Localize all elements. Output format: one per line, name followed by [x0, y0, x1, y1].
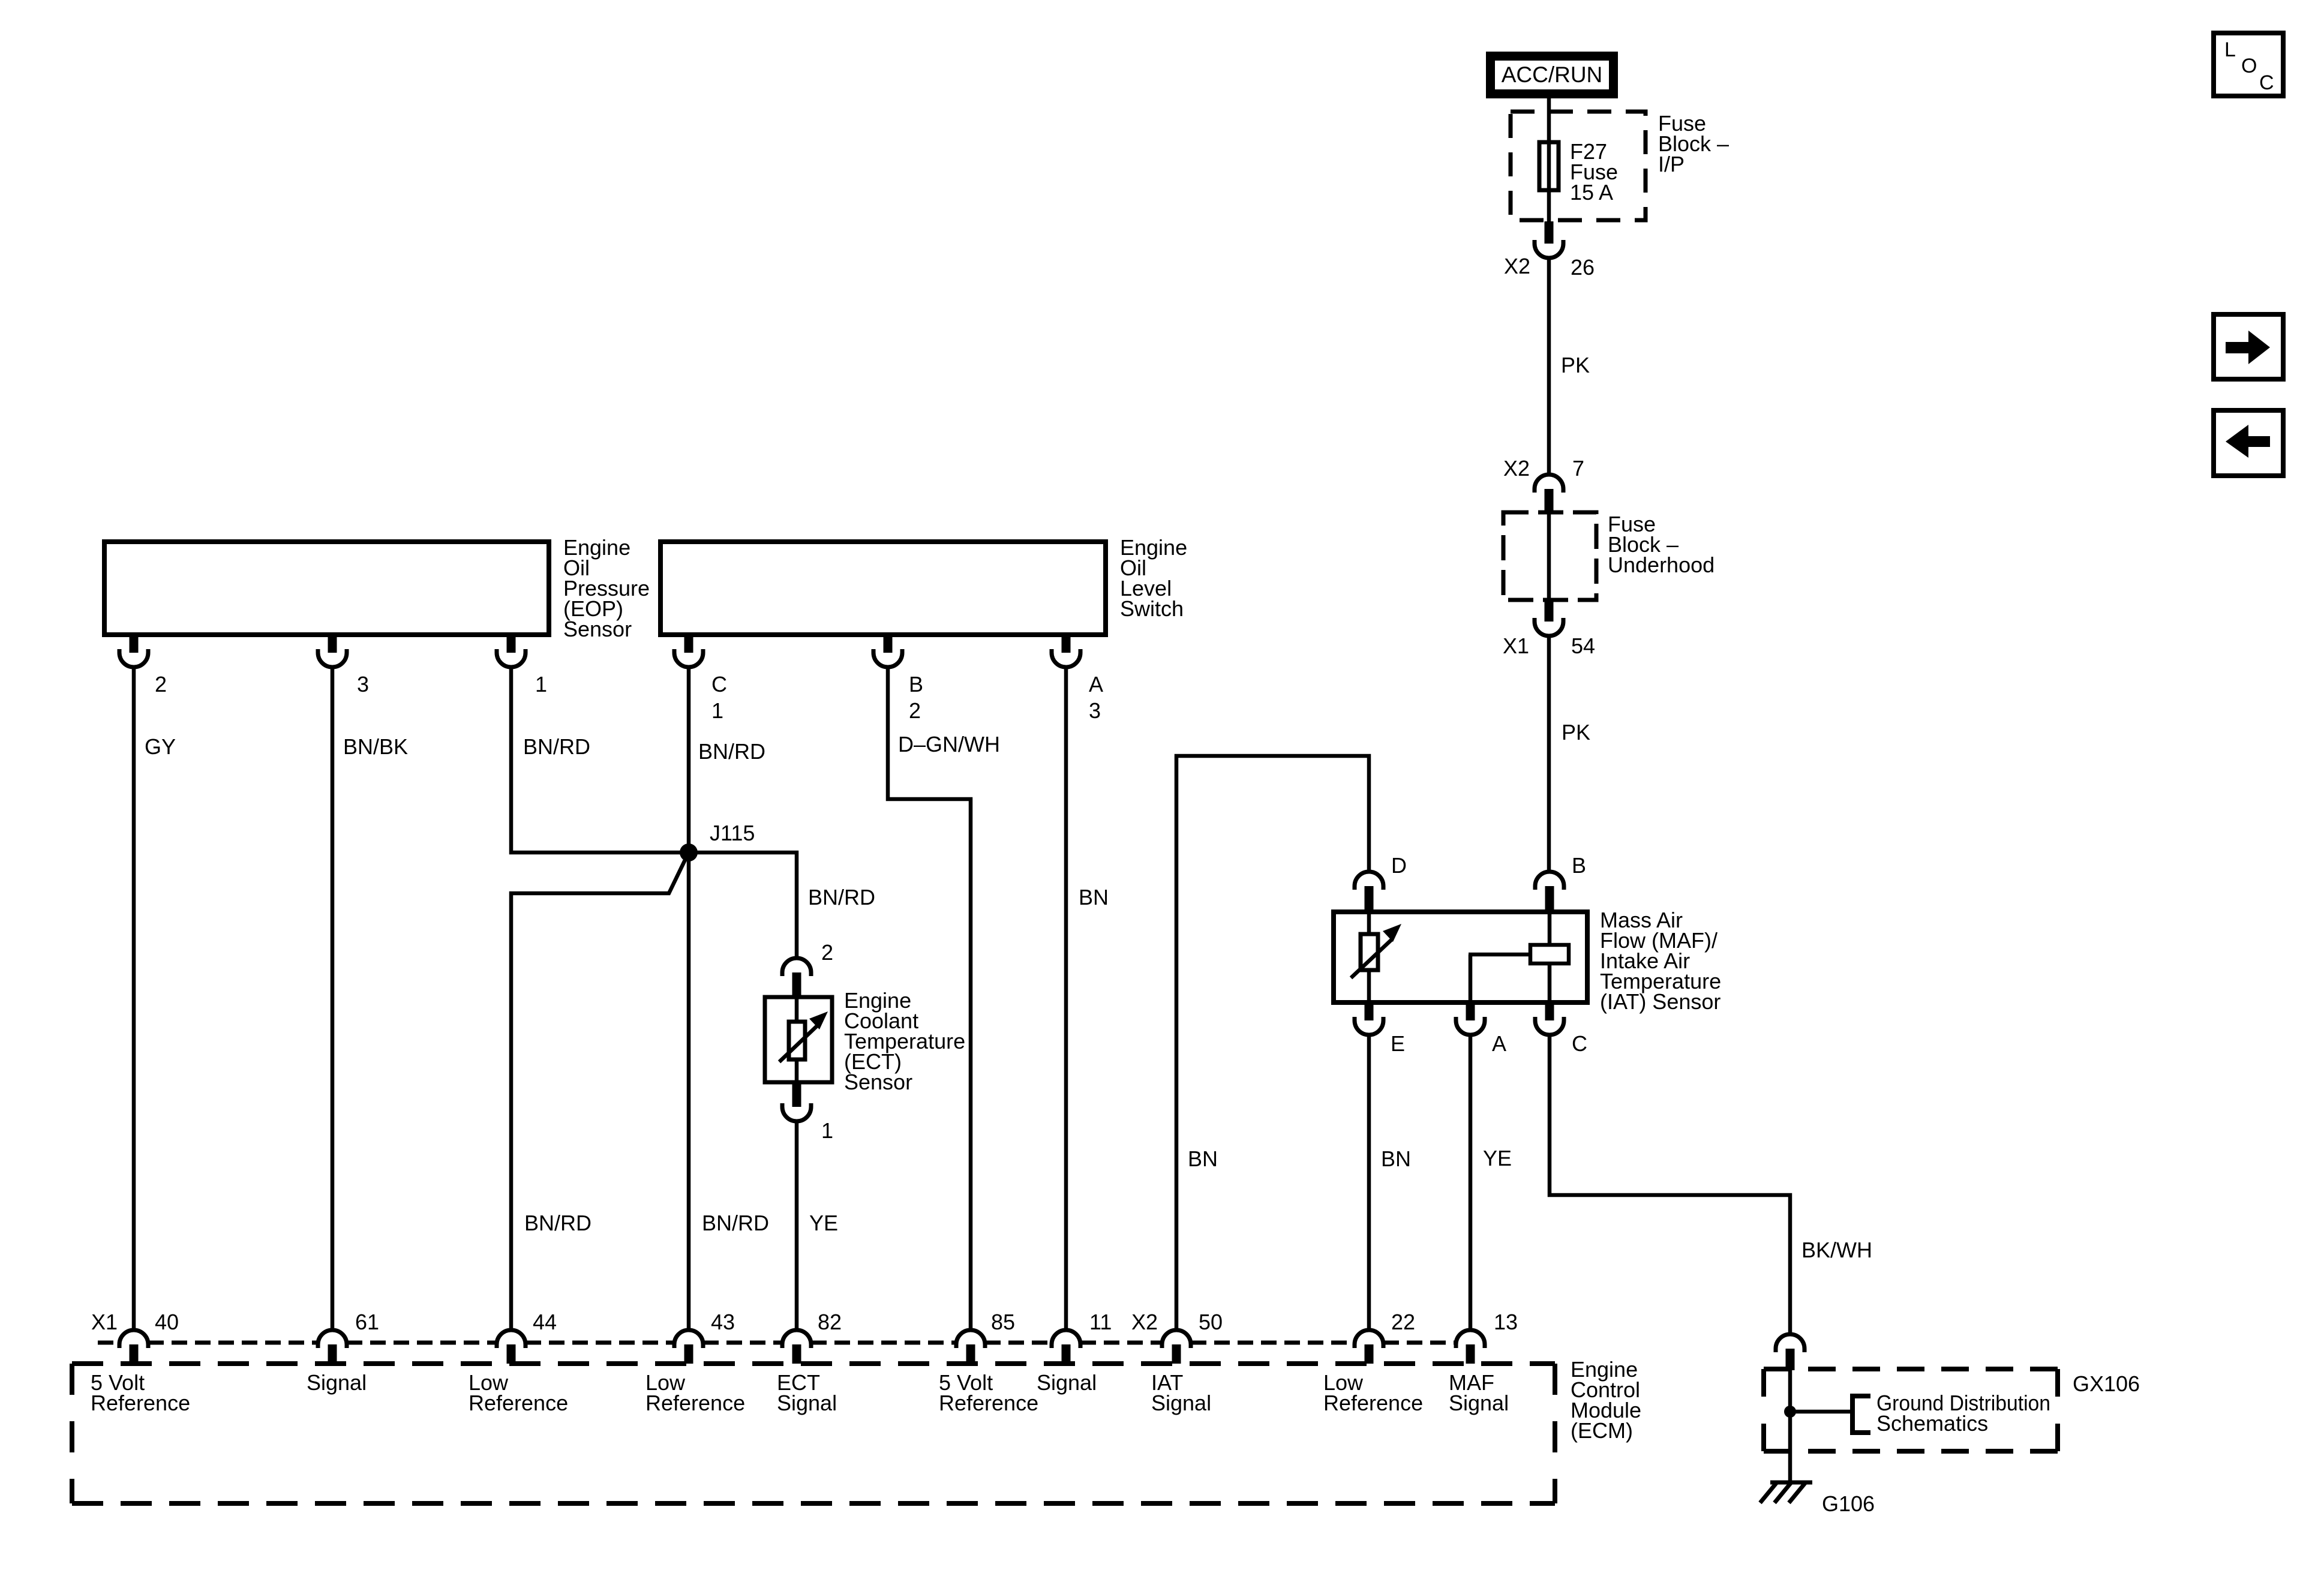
connector X1 pin 54 (fuse block underhood) — [1545, 601, 1554, 622]
connector ECM pin at x=2282 — [1355, 1330, 1383, 1348]
svg-text:PK: PK — [1561, 353, 1590, 377]
connector EOP pin 3 — [328, 636, 337, 653]
wire internal MAF sense element branch — [1469, 912, 1550, 1000]
wire BN (MAF E to ECM 22) — [1367, 1035, 1371, 1330]
svg-text:3: 3 — [1089, 698, 1101, 723]
svg-text:B: B — [1572, 853, 1586, 878]
svg-text:26: 26 — [1571, 255, 1595, 280]
node Engine Oil Pressure (EOP) Sensor box — [104, 542, 549, 635]
wire through fuse block underhood — [1547, 511, 1551, 601]
connector EOP pin 2 — [130, 636, 139, 653]
node GX106 dashed box — [1764, 1367, 2058, 1371]
svg-text:O: O — [2241, 55, 2257, 77]
wire BK/WH (MAF C to ground G106) — [1550, 1035, 1790, 1334]
connector X2 pin 26 (fuse block I/P) — [1545, 221, 1554, 244]
svg-text:BN/BK: BN/BK — [343, 734, 408, 759]
connector ECM pin at x=1777 — [1052, 1330, 1080, 1348]
svg-text:X1: X1 — [1503, 634, 1529, 658]
wire PK (X2-26 to X2-7) — [1547, 258, 1551, 475]
svg-text:YE: YE — [1483, 1146, 1512, 1170]
svg-text:A: A — [1492, 1031, 1506, 1056]
svg-text:BN: BN — [1381, 1146, 1411, 1171]
svg-text:YE: YE — [809, 1211, 838, 1235]
wire BN/RD (J115 to ECT pin 2) — [689, 852, 797, 958]
svg-text:E: E — [1391, 1031, 1405, 1056]
node LOC reference box — [2214, 33, 2283, 96]
connector MAF pin C — [1545, 1004, 1554, 1020]
svg-text:BN/RD: BN/RD — [524, 1211, 591, 1235]
thermistor ECT element — [789, 1022, 805, 1059]
connector MAF pin E — [1365, 1004, 1374, 1020]
wire BN (ECM 50 to MAF pin D, IAT signal) — [1176, 756, 1369, 1330]
fuse block underhood dashed outline — [1503, 512, 1596, 600]
wire BN/RD (J115 to ECM 44) — [511, 852, 689, 1330]
svg-text:C: C — [1572, 1031, 1587, 1056]
connector ground splice GX106 — [1786, 1349, 1795, 1370]
svg-text:C: C — [711, 672, 727, 697]
node Engine Control Module (ECM) dashed box — [72, 1361, 1555, 1366]
node backward arrow box — [2214, 410, 2283, 476]
svg-text:61: 61 — [355, 1310, 379, 1334]
svg-text:43: 43 — [711, 1310, 735, 1334]
svg-text:BN/RD: BN/RD — [698, 739, 765, 764]
svg-text:BN/RD: BN/RD — [808, 885, 875, 909]
svg-text:X2: X2 — [1504, 254, 1530, 278]
svg-text:Signal: Signal — [307, 1370, 367, 1395]
svg-text:2: 2 — [909, 698, 921, 723]
svg-text:G106: G106 — [1822, 1491, 1875, 1516]
connector oil level switch pin C — [684, 636, 693, 653]
svg-text:54: 54 — [1571, 634, 1595, 658]
svg-text:1: 1 — [711, 698, 723, 723]
thermistor IAT element — [1361, 934, 1378, 970]
svg-text:C: C — [2259, 71, 2274, 94]
svg-text:GX106: GX106 — [2073, 1371, 2140, 1396]
connector ECM pin at x=554 — [318, 1330, 347, 1348]
connector oil level switch pin B — [884, 636, 893, 653]
svg-text:A: A — [1089, 672, 1103, 697]
ground G106 symbol — [1770, 1481, 1812, 1485]
connector MAF pin D — [1365, 886, 1374, 911]
svg-text:40: 40 — [155, 1310, 179, 1334]
svg-text:11: 11 — [1089, 1310, 1112, 1334]
connector oil level switch pin A — [1062, 636, 1071, 653]
wire internal ECT — [795, 997, 799, 1082]
svg-text:BN: BN — [1079, 885, 1109, 909]
wire YE (MAF A to ECM 13) — [1469, 1035, 1473, 1330]
svg-text:1: 1 — [821, 1118, 833, 1143]
wire to ground distribution reference — [1790, 1410, 1852, 1414]
fuse block I/P dashed outline — [1511, 112, 1646, 220]
node ground distribution page bracket — [1852, 1396, 1870, 1433]
svg-text:BN/RD: BN/RD — [702, 1211, 769, 1235]
svg-text:L: L — [2224, 38, 2236, 61]
svg-text:Signal: Signal — [1037, 1370, 1097, 1395]
svg-text:3: 3 — [357, 672, 369, 697]
svg-text:82: 82 — [818, 1310, 842, 1334]
svg-text:PK: PK — [1562, 720, 1590, 745]
connector ECM pin at x=2451 — [1456, 1330, 1485, 1348]
connector ECT pin 1 — [792, 1083, 801, 1107]
wire YE (ECT 1 to ECM 82) — [795, 1121, 799, 1330]
connector X2 pin 7 (fuse block underhood) — [1545, 489, 1554, 511]
node Engine Coolant Temperature (ECT) Sensor box — [765, 997, 832, 1082]
connector ECM pin at x=1618 — [956, 1330, 985, 1348]
svg-text:44: 44 — [533, 1310, 557, 1334]
svg-text:85: 85 — [991, 1310, 1015, 1334]
svg-text:EngineControlModule(ECM): EngineControlModule(ECM) — [1571, 1357, 1641, 1443]
connector ECM pin at x=852 — [497, 1330, 526, 1348]
fuse F27 15A — [1539, 142, 1559, 190]
wire BN/BK (EOP 3 to ECM 61) — [331, 667, 335, 1330]
wire PK (X1-54 to MAF pin B) — [1547, 636, 1551, 872]
svg-text:X2: X2 — [1503, 456, 1530, 481]
svg-text:D: D — [1391, 853, 1407, 878]
connector EOP pin 1 — [507, 636, 516, 653]
wire internal MAF thermistor branch — [1367, 912, 1371, 1000]
connector ECM pin at x=1961 — [1162, 1330, 1191, 1348]
svg-text:BK/WH: BK/WH — [1801, 1238, 1872, 1262]
node junction dot in GX106 — [1784, 1406, 1796, 1418]
wire ground run inside GX106 — [1788, 1369, 1792, 1481]
wire BN/RD (level switch C through J115 to ECM 43) — [687, 667, 691, 1330]
wire D-GN/WH (level switch B to ECM 85) — [888, 667, 971, 1330]
svg-text:2: 2 — [155, 672, 167, 697]
connector ECM pin at x=1148 — [674, 1330, 703, 1348]
node Mass Air Flow (MAF) / Intake Air Temperature (IAT) Sensor box — [1334, 912, 1587, 1002]
svg-text:7: 7 — [1572, 456, 1584, 481]
svg-text:22: 22 — [1391, 1310, 1415, 1334]
node forward arrow box — [2214, 314, 2283, 379]
svg-text:J115: J115 — [710, 821, 755, 845]
wire GY (EOP 2 to ECM 40) — [132, 667, 136, 1330]
svg-text:B: B — [909, 672, 923, 697]
resistor MAF sense element — [1530, 945, 1569, 963]
node ECM connector dotted line — [98, 1341, 1456, 1345]
svg-text:50: 50 — [1199, 1310, 1223, 1334]
svg-text:X1: X1 — [91, 1310, 118, 1334]
svg-text:ACC/RUN: ACC/RUN — [1502, 62, 1603, 87]
wire BN (level switch A to ECM 11) — [1064, 667, 1068, 1330]
connector MAF pin A — [1466, 1004, 1475, 1020]
node Engine Oil Level Switch box — [660, 542, 1106, 635]
svg-text:13: 13 — [1494, 1310, 1518, 1334]
wire ACC/RUN to fuse F27 (inside Fuse Block I/P) — [1547, 98, 1551, 223]
connector ECM pin at x=1328 — [782, 1330, 811, 1348]
svg-text:D–GN/WH: D–GN/WH — [898, 732, 1000, 757]
connector MAF pin B — [1545, 886, 1554, 911]
svg-text:X2: X2 — [1131, 1310, 1158, 1334]
svg-text:BN: BN — [1188, 1146, 1218, 1171]
wire BN/RD (EOP 1 to splice J115) — [511, 667, 684, 852]
node splice J115 — [680, 843, 698, 861]
svg-text:2: 2 — [821, 940, 833, 965]
svg-text:GY: GY — [145, 734, 176, 759]
svg-text:1: 1 — [535, 672, 547, 697]
connector ECT pin 2 — [792, 972, 801, 996]
svg-text:BN/RD: BN/RD — [523, 734, 590, 759]
connector ECM pin at x=223 — [119, 1330, 148, 1348]
node ACC/RUN power feed box — [1486, 52, 1618, 98]
